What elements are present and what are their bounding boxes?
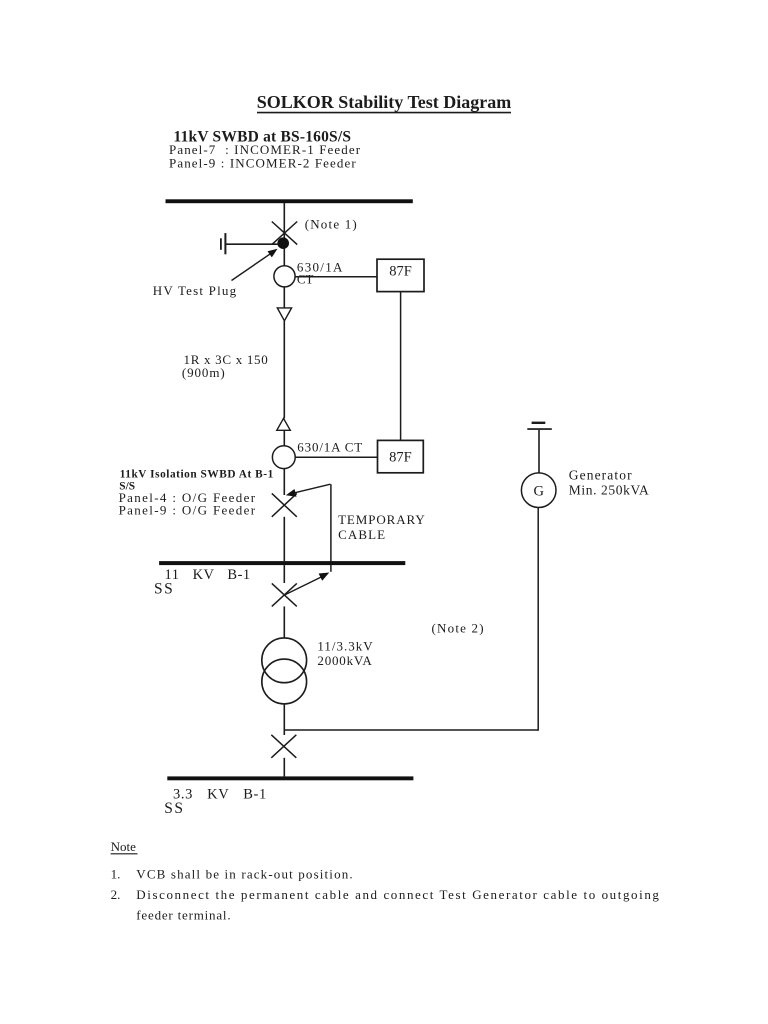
wire cable to CT2 (283, 430, 285, 446)
circuit breaker CB2 (O/G feeder) (272, 493, 297, 516)
svg-text:G: G (533, 483, 544, 499)
current transformer CT2 630/1A (272, 446, 295, 469)
relay 87F upper (377, 259, 424, 291)
cable termination arrow (down) (277, 308, 291, 321)
svg-text:HV Test Plug: HV Test Plug (153, 283, 238, 298)
svg-text:1.: 1. (111, 867, 121, 882)
earth/source symbol above generator (527, 422, 552, 430)
svg-text:2000kVA: 2000kVA (317, 653, 372, 668)
svg-text:Note: Note (111, 839, 137, 854)
svg-text:SOLKOR Stability Test Diagram: SOLKOR Stability Test Diagram (257, 92, 512, 112)
svg-text:87F: 87F (389, 264, 412, 280)
wire CT2 to breaker CB2 (283, 469, 285, 496)
wire CT1 to cable head (283, 287, 285, 308)
note item 2 line 1 (111, 887, 660, 902)
cable termination arrow (up) (277, 418, 291, 430)
title: SOLKOR Stability Test Diagram (257, 92, 512, 113)
wire cable run 1R x 3C x 150 (283, 321, 285, 419)
svg-text:(900m): (900m) (182, 365, 226, 380)
transformer T1 11/3.3kV 2000kVA (262, 638, 307, 704)
note heading (111, 839, 138, 854)
generator G1 Min. 250kVA (521, 473, 556, 508)
relay 87F lower (378, 440, 424, 472)
svg-text:feeder terminal.: feeder terminal. (136, 907, 231, 922)
note item 1 (111, 867, 354, 882)
svg-text:3.3 KV B-1: 3.3 KV B-1 (173, 787, 267, 803)
wire generator to junction (537, 508, 539, 731)
wire busbar to breaker CB3 (283, 565, 285, 583)
wire node to HV test plug (226, 243, 279, 245)
circuit breaker CB1 (rack-out, Note 1) (272, 222, 297, 245)
svg-text:VCB shall be in rack-out posit: VCB shall be in rack-out position. (136, 867, 353, 882)
wire CT2 to relay 87F lower (295, 456, 377, 458)
HV test plug terminal (221, 233, 226, 254)
svg-text:630/1A CT: 630/1A CT (297, 439, 363, 454)
wire earth to generator G1 (538, 430, 540, 473)
wire CB2 to 11kV B-1 busbar (283, 517, 285, 561)
wire CB3 to transformer T1 (283, 606, 285, 638)
svg-text:CT: CT (297, 272, 314, 287)
wire CB4 to 3.3kV busbar (283, 758, 285, 777)
svg-text:11/3.3kV: 11/3.3kV (317, 638, 373, 653)
svg-text:SS: SS (154, 580, 174, 597)
busbar 11 KV B-1 SS (159, 561, 405, 565)
svg-text:Min. 250kVA: Min. 250kVA (569, 482, 650, 497)
circuit breaker CB3 (272, 583, 297, 606)
svg-text:(Note 1): (Note 1) (305, 217, 358, 232)
wire relay 87F upper to relay 87F lower (400, 292, 402, 441)
svg-text:SS: SS (164, 800, 184, 817)
circuit breaker CB4 (271, 735, 296, 758)
svg-text:TEMPORARY: TEMPORARY (338, 512, 426, 527)
busbar 3.3 KV B-1 SS (167, 776, 413, 780)
wire node to CT1 (283, 249, 285, 267)
wire bus to breaker CB1 (283, 203, 285, 238)
svg-text:(Note 2): (Note 2) (432, 621, 485, 636)
busbar 11kV SWBD BS-160S/S (166, 199, 413, 203)
svg-text:CABLE: CABLE (338, 527, 386, 542)
svg-text:Disconnect the permanent cable: Disconnect the permanent cable and conne… (136, 887, 659, 902)
svg-text:11kV Isolation SWBD At B-1: 11kV Isolation SWBD At B-1 (120, 468, 274, 480)
svg-text:Panel-9 : INCOMER-2 Feeder: Panel-9 : INCOMER-2 Feeder (169, 155, 357, 170)
temporary cable arrow from CB3 (285, 573, 330, 596)
svg-text:Generator: Generator (569, 467, 633, 482)
svg-text:2.: 2. (111, 887, 121, 902)
svg-text:11 KV B-1: 11 KV B-1 (165, 567, 251, 583)
svg-text:Panel-9 : O/G Feeder: Panel-9 : O/G Feeder (119, 503, 257, 518)
wire transformer to junction (283, 704, 285, 735)
callout arrow to HV test plug node (232, 249, 278, 281)
node junction dot (277, 237, 289, 249)
wire junction to generator branch (284, 729, 539, 731)
temporary cable polyline with arrow into CB2 (286, 484, 331, 572)
wire CT1 to relay 87F upper (295, 276, 377, 278)
current transformer CT1 630/1A (274, 266, 295, 287)
svg-text:87F: 87F (389, 450, 412, 466)
